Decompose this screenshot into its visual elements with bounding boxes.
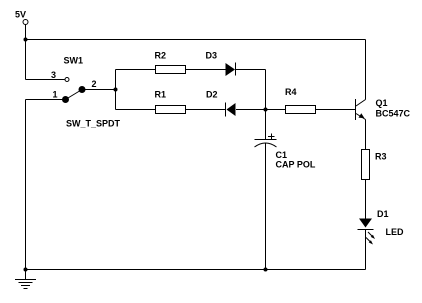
junction pin2 branch node (114, 88, 118, 92)
wire R1 to D2 (186, 109, 226, 111)
svg-text:CAP POL: CAP POL (276, 160, 316, 170)
svg-text:Q1: Q1 (376, 98, 388, 108)
svg-text:C1: C1 (276, 150, 288, 160)
ground (15, 270, 36, 289)
junction cap to rail (264, 268, 268, 272)
wire right join vertical (265, 70, 267, 110)
junction ground node (24, 268, 28, 272)
resistor R1 (156, 106, 186, 114)
base bar (355, 99, 357, 120)
plus sign (268, 136, 275, 138)
svg-text:3: 3 (51, 70, 56, 80)
svg-text:D1: D1 (377, 209, 389, 219)
resistor R2 (156, 66, 186, 74)
pin 1 contact (62, 96, 69, 103)
resistor R4 (286, 106, 316, 114)
wire top rail (26, 39, 366, 41)
switch SW1 (62, 78, 86, 104)
svg-text:R3: R3 (375, 152, 387, 162)
pin 3 open contact (65, 78, 69, 82)
wire D2 to node (236, 109, 266, 111)
junction diode node (264, 108, 268, 112)
junction at 5V rail (24, 38, 28, 42)
emission arrow 2 (366, 238, 372, 244)
svg-text:2: 2 (92, 79, 97, 89)
wire top branch to R2 (116, 69, 156, 71)
LED D1 (358, 219, 376, 245)
wire R2 to D3 (186, 69, 226, 71)
wire R3 to LED (365, 180, 367, 219)
wire R4 to base (316, 109, 356, 111)
wire bottom branch to R1 (116, 109, 156, 111)
svg-text:SW1: SW1 (64, 56, 84, 66)
wire branch left vertical (115, 70, 117, 110)
emitter arrow (359, 113, 365, 118)
svg-text:R1: R1 (155, 90, 167, 100)
svg-text:LED: LED (386, 227, 405, 237)
svg-text:R2: R2 (155, 51, 167, 61)
power terminal 5V (23, 20, 28, 25)
emitter diagonal (356, 114, 366, 120)
wire emitter vertical to R3 (365, 120, 367, 150)
switch lever (66, 90, 83, 100)
pole contact pin 2 (79, 86, 86, 93)
svg-text:R4: R4 (285, 87, 297, 97)
wire 5V terminal to pin3 level (25, 25, 27, 80)
svg-text:SW_T_SPDT: SW_T_SPDT (66, 119, 121, 129)
wire pin3 horizontal (26, 79, 65, 81)
wire bottom rail (26, 269, 366, 271)
wire left vertical to ground (25, 100, 27, 270)
wire D3 to right join (236, 69, 266, 71)
resistor R3 (362, 150, 370, 180)
transistor Q1 (356, 99, 366, 120)
capacitor C1 (255, 134, 277, 148)
wire collector vertical (365, 40, 367, 100)
diode D2 (226, 103, 236, 117)
wire C1 bottom to rail (265, 144, 267, 270)
wire node to R4 (266, 109, 286, 111)
wire node down to C1 top (265, 110, 267, 140)
wire LED to rail (365, 230, 367, 270)
svg-text:D3: D3 (206, 51, 218, 61)
svg-text:BC547C: BC547C (376, 109, 411, 119)
emission arrow 1 (368, 232, 374, 238)
svg-text:D2: D2 (206, 90, 218, 100)
wire pin1 horizontal (26, 99, 66, 101)
wire pin2 to branch node (82, 89, 116, 91)
collector diagonal (356, 100, 366, 107)
svg-text:1: 1 (53, 90, 58, 100)
diode D3 (226, 63, 236, 77)
svg-text:5V: 5V (15, 10, 26, 20)
